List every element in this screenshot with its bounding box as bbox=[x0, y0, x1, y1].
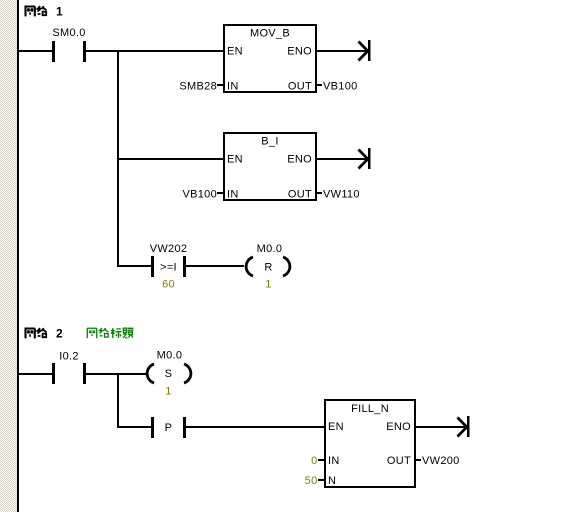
svg-text:I0.2: I0.2 bbox=[59, 351, 79, 363]
svg-text:OUT: OUT bbox=[288, 189, 312, 201]
contact P (positive edge) bbox=[151, 417, 186, 438]
wire: B_I ENO to arrow bbox=[317, 158, 368, 160]
network 2 green title text bbox=[87, 328, 133, 338]
svg-text:N: N bbox=[328, 475, 336, 487]
wire: branch to compare contact bbox=[117, 265, 151, 267]
svg-text:1: 1 bbox=[56, 5, 63, 19]
contact SM0.0 bbox=[52, 27, 86, 62]
svg-text:P: P bbox=[165, 422, 173, 434]
svg-text:1: 1 bbox=[265, 279, 271, 291]
wire: SM0.0 to MOV_B EN bbox=[86, 50, 223, 52]
svg-text:IN: IN bbox=[227, 189, 239, 201]
wire: compare contact to coil M0.0 R bbox=[186, 265, 244, 267]
svg-text:EN: EN bbox=[227, 46, 243, 58]
svg-text:SM0.0: SM0.0 bbox=[52, 27, 85, 39]
wire: MOV_B ENO to arrow bbox=[317, 50, 368, 52]
svg-text:MOV_B: MOV_B bbox=[250, 28, 290, 40]
wire: branch to contact P bbox=[117, 426, 151, 428]
svg-text:>=I: >=I bbox=[160, 262, 177, 274]
wire: IN stub bbox=[318, 459, 324, 461]
svg-text:EN: EN bbox=[227, 154, 243, 166]
svg-text:VW200: VW200 bbox=[422, 455, 460, 467]
svg-text:FILL_N: FILL_N bbox=[351, 403, 389, 415]
svg-text:50: 50 bbox=[305, 475, 318, 487]
wire: MOV_B OUT stub bbox=[317, 84, 322, 86]
svg-text:B_I: B_I bbox=[261, 136, 278, 148]
svg-text:R: R bbox=[264, 262, 272, 274]
coil M0.0 (S) bbox=[147, 350, 191, 398]
svg-text:VW202: VW202 bbox=[150, 243, 188, 255]
svg-text:1: 1 bbox=[165, 386, 171, 398]
wire: rail to contact I0.2 bbox=[19, 373, 52, 375]
svg-text:M0.0: M0.0 bbox=[257, 243, 283, 255]
contact I0.2 bbox=[52, 351, 86, 385]
svg-text:ENO: ENO bbox=[386, 421, 411, 433]
compare contact VW202 >=I bbox=[150, 243, 188, 291]
svg-text:60: 60 bbox=[162, 279, 175, 291]
left power rail bbox=[17, 0, 19, 512]
svg-text:IN: IN bbox=[328, 455, 340, 467]
wire: P contact to FILL_N EN bbox=[186, 426, 324, 428]
wire: branch vertical junction network 2 bbox=[117, 373, 119, 428]
box FILL_N bbox=[325, 400, 415, 487]
svg-text:OUT: OUT bbox=[387, 455, 411, 467]
svg-text:VB100: VB100 bbox=[323, 81, 358, 93]
wire: B_I OUT stub bbox=[317, 192, 322, 194]
open arrow continuation (network 1 rung 2) bbox=[359, 148, 371, 169]
wire: SMB28 stub bbox=[217, 84, 223, 86]
wire: branch vertical junction bbox=[117, 50, 119, 267]
wire: rail to contact SM0.0 bbox=[19, 50, 52, 52]
svg-text:S: S bbox=[165, 368, 173, 380]
svg-text:OUT: OUT bbox=[288, 81, 312, 93]
network 1 header label bbox=[25, 5, 64, 19]
wire: FILL_N ENO to arrow bbox=[416, 426, 467, 428]
network 2 header label bbox=[25, 327, 64, 341]
wire: branch to B_I EN bbox=[119, 158, 224, 160]
wire: VB100 stub bbox=[217, 192, 223, 194]
svg-text:VW110: VW110 bbox=[323, 189, 360, 201]
coil M0.0 (R) bbox=[246, 243, 290, 291]
wire: FILL_N OUT stub bbox=[416, 459, 421, 461]
box B_I bbox=[224, 133, 316, 201]
svg-text:ENO: ENO bbox=[287, 154, 312, 166]
box MOV_B bbox=[224, 25, 316, 93]
svg-text:IN: IN bbox=[227, 81, 239, 93]
svg-text:0: 0 bbox=[311, 455, 317, 467]
wire: I0.2 to coil M0.0 S bbox=[86, 373, 146, 375]
open arrow continuation (network 2 rung 2) bbox=[458, 416, 470, 437]
left gutter margin bbox=[0, 0, 17, 512]
svg-text:M0.0: M0.0 bbox=[157, 350, 183, 362]
svg-text:ENO: ENO bbox=[287, 46, 312, 58]
svg-text:VB100: VB100 bbox=[182, 189, 217, 201]
svg-text:SMB28: SMB28 bbox=[179, 81, 217, 93]
svg-text:2: 2 bbox=[56, 327, 63, 341]
svg-text:EN: EN bbox=[328, 421, 344, 433]
open arrow continuation (network 1 rung 1) bbox=[359, 40, 371, 61]
wire: N stub bbox=[318, 479, 324, 481]
